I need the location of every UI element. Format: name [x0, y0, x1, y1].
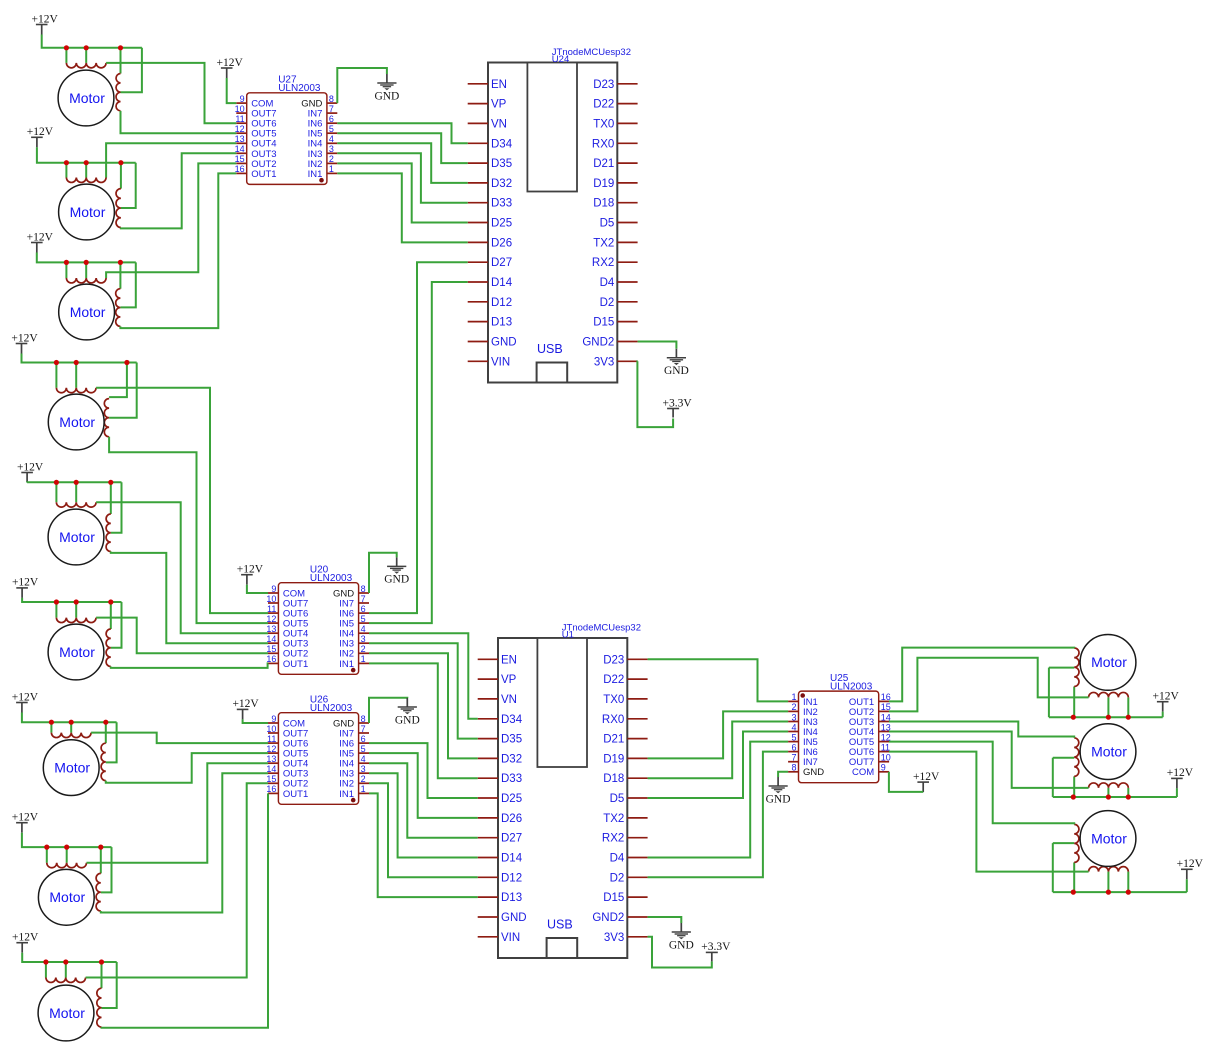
U1 pin VP: [478, 674, 517, 686]
wire rail center-tap coil-A (M-left-4): [75, 363, 77, 388]
svg-text:IN1: IN1: [339, 659, 354, 670]
U20 pin 9 COM: [268, 584, 305, 600]
svg-text:+12V: +12V: [17, 461, 44, 473]
U20 pin-1 marker dot: [351, 668, 356, 673]
svg-text:8: 8: [361, 714, 366, 724]
svg-text:OUT1: OUT1: [283, 789, 308, 800]
wire coil-A right to rail (M-right-3): [1127, 872, 1129, 893]
U24 pin D2: [600, 297, 638, 309]
coil A horizontal winding (M-left-2): [66, 178, 106, 183]
svg-text:OUT1: OUT1: [251, 169, 276, 180]
wire rail center-tap coil-A (M-left-3): [85, 262, 87, 278]
wire U27 GND to ground: [337, 68, 387, 103]
U24 pin D34: [468, 138, 513, 150]
svg-text:7: 7: [361, 724, 366, 734]
wire rail to coil-A left (M-left-1): [65, 48, 67, 63]
wire coil-A tap to rail (M-right-3): [1107, 872, 1109, 893]
wire rail-end to coil-B center-tap (M-left-8): [101, 847, 112, 892]
wire +12V rail (M-right-2): [1053, 796, 1177, 798]
svg-text:+12V: +12V: [12, 932, 39, 944]
U26 pin 12 OUT5: [266, 744, 308, 760]
power +12V (M-right-2): [1167, 767, 1194, 788]
U1 pin TX2: [603, 813, 647, 825]
U26 pin 10 OUT7: [266, 724, 308, 740]
U20 pin 2 IN2: [339, 644, 369, 660]
svg-text:1: 1: [791, 692, 796, 702]
power +12V (M-left-6): [12, 577, 39, 598]
module U1 USB connector: [547, 938, 578, 958]
junction rail/coil-A tap (M-right-2): [1106, 794, 1111, 799]
U25 pin 8 GND: [788, 763, 824, 779]
power +12V (M-right-1): [1153, 691, 1180, 712]
U27 pin 15 OUT2: [235, 154, 277, 170]
wire coil-A right to rail (M-right-1): [1127, 697, 1129, 717]
svg-text:4: 4: [361, 624, 366, 634]
U24 pin D18: [593, 198, 637, 210]
svg-text:D12: D12: [491, 297, 512, 309]
svg-text:GND: GND: [803, 767, 824, 778]
junction rail/coil-A tap (M-left-6): [74, 599, 79, 604]
U24 pin D26: [468, 237, 512, 249]
motor M-left-8: [38, 869, 94, 925]
U24 pin TX2: [593, 237, 637, 249]
svg-text:5: 5: [361, 614, 366, 624]
wire +12V to U26 COM: [243, 719, 268, 723]
motor M-left-6: [48, 624, 104, 680]
svg-text:D34: D34: [491, 138, 513, 150]
coil A horizontal winding (M-right-2): [1089, 783, 1129, 788]
U1 pin D35: [478, 734, 522, 746]
svg-text:D14: D14: [491, 277, 513, 289]
svg-text:Motor: Motor: [70, 304, 106, 320]
U1 pin D2: [610, 872, 648, 884]
U24 pin VP: [468, 99, 507, 111]
U24 pin VN: [468, 118, 507, 130]
U26 pin 1 IN1: [339, 784, 369, 800]
wire U20 GND to ground: [369, 553, 397, 593]
wire +12V rail (M-left-4): [22, 354, 137, 363]
U1 pin D15: [603, 892, 647, 904]
U20 pin 8 GND: [333, 584, 369, 600]
svg-text:4: 4: [329, 134, 334, 144]
svg-text:D5: D5: [610, 793, 625, 805]
svg-text:U24: U24: [552, 54, 569, 65]
coil A horizontal winding (M-left-4): [56, 388, 96, 393]
svg-text:D18: D18: [603, 773, 624, 785]
U27 pin 11 OUT6: [235, 114, 276, 130]
svg-text:GND2: GND2: [582, 337, 614, 349]
wire rail to coil-A left (M-left-4): [55, 363, 57, 388]
coil B vertical winding (M-left-3): [116, 289, 121, 327]
svg-text:D19: D19: [603, 753, 624, 765]
svg-text:Motor: Motor: [59, 644, 95, 660]
U27 pin 10 OUT7: [235, 104, 277, 120]
wire net M3 coilB to U27 OUT1: [120, 173, 236, 328]
svg-text:3: 3: [361, 764, 366, 774]
svg-text:VN: VN: [491, 118, 507, 130]
svg-text:+12V: +12V: [232, 698, 259, 710]
U1 pin D5: [610, 793, 648, 805]
svg-text:3V3: 3V3: [604, 932, 624, 944]
svg-text:GND: GND: [501, 912, 527, 924]
U1 pin VIN: [478, 932, 520, 944]
U25 pin 12 OUT5: [849, 732, 891, 748]
U20 pin 6 IN6: [339, 604, 369, 620]
svg-text:2: 2: [329, 154, 334, 164]
coil B vertical winding (M-left-7): [101, 743, 106, 780]
wire rail to coil-B top (M-left-7): [105, 722, 107, 743]
wire +12V rail (M-left-7): [22, 713, 117, 723]
junction rail/coil-A left (M-left-4): [54, 360, 59, 365]
coil B vertical winding (M-left-9): [97, 988, 102, 1027]
svg-text:3: 3: [791, 712, 796, 722]
U1 pin D33: [478, 773, 522, 785]
wire +12V rail (M-right-1): [1049, 716, 1163, 718]
svg-text:D26: D26: [491, 237, 512, 249]
wire rail to coil-A left (M-left-7): [50, 722, 52, 732]
wire +12V rail (M-left-9): [22, 953, 117, 962]
U1 pin D18: [603, 773, 647, 785]
svg-text:D35: D35: [491, 158, 512, 170]
module U24 USB connector: [537, 363, 568, 383]
wire U26 GND to ground: [369, 698, 407, 723]
U1 pin TX0: [603, 694, 647, 706]
svg-text:11: 11: [267, 734, 276, 744]
svg-text:3V3: 3V3: [594, 356, 614, 368]
svg-text:GND: GND: [766, 793, 791, 805]
junction rail/coil-A right (M-right-2): [1126, 794, 1131, 799]
svg-text:ULN2003: ULN2003: [310, 573, 353, 584]
wire U24 GND2 to ground: [638, 342, 677, 349]
svg-text:D25: D25: [491, 218, 512, 230]
U27 pin 3 IN3: [308, 144, 338, 160]
junction rail/coil-A left (M-left-2): [64, 160, 69, 165]
junction rail/coil-A right (M-right-3): [1126, 890, 1131, 895]
wire +12V rail (M-right-3): [1053, 891, 1187, 893]
wire net U25 OUT5 to M-right-3 coilB: [889, 742, 1074, 825]
U1 pin D12: [478, 872, 522, 884]
U24 pin D15: [593, 317, 637, 329]
svg-text:D32: D32: [501, 753, 522, 765]
svg-text:+12V: +12V: [11, 332, 38, 344]
U26 pin 7 IN7: [339, 724, 369, 740]
U20 pin 16 OUT1: [266, 654, 308, 670]
junction rail/coil-B (M-left-6): [108, 599, 113, 604]
svg-text:+12V: +12V: [12, 812, 39, 824]
wire center-tap down to rail (M-right-3): [1052, 843, 1054, 892]
IC U26 ULN2003 body: [278, 713, 358, 805]
junction rail/coil-A left (M-left-6): [54, 599, 59, 604]
wire +12V rail (M-left-2): [37, 147, 136, 162]
wire net M9 coilA to U26 OUT2: [86, 783, 268, 977]
svg-text:11: 11: [881, 742, 890, 752]
svg-text:D2: D2: [600, 297, 615, 309]
svg-text:1: 1: [361, 654, 366, 664]
wire net U1 D18 to U25 IN3: [648, 722, 789, 779]
wire coil-A right to rail (M-right-2): [1127, 788, 1129, 797]
junction rail/coil-A tap (M-right-3): [1106, 890, 1111, 895]
wire U25 COM to +12V: [889, 772, 923, 792]
U20 pin 7 IN7: [339, 594, 369, 610]
junction rail/coil-A tap (M-left-5): [74, 480, 79, 485]
svg-text:5: 5: [361, 744, 366, 754]
wire rail to coil-A left (M-left-8): [46, 847, 48, 863]
svg-text:6: 6: [361, 734, 366, 744]
svg-text:9: 9: [271, 584, 276, 594]
U25 pin 6 IN6: [788, 742, 818, 758]
wire +12V rail (M-left-5): [27, 481, 121, 483]
wire net U27 IN5 to U24 D35: [337, 133, 467, 163]
svg-text:D22: D22: [593, 99, 614, 111]
wire rail-end to coil-B center-tap (M-left-7): [106, 722, 117, 762]
junction rail/coil-A left (M-left-7): [49, 720, 54, 725]
wire net U27 IN4 to U24 D32: [337, 143, 467, 183]
svg-text:3: 3: [361, 634, 366, 644]
wire +12V rail (M-left-6): [22, 598, 121, 602]
wire net M5 coilB to U20 OUT3: [111, 552, 268, 644]
svg-text:+3.3V: +3.3V: [701, 941, 731, 953]
svg-text:TX0: TX0: [603, 694, 624, 706]
junction rail/coil-B (M-left-8): [98, 845, 103, 850]
svg-text:USB: USB: [537, 342, 563, 356]
power +12V (M-left-8): [12, 812, 39, 833]
coil A horizontal winding (M-left-1): [66, 63, 106, 68]
U24 pin D25: [468, 218, 512, 230]
junction rail/coil-A left (M-left-1): [64, 45, 69, 50]
power +12V (M-left-5): [17, 461, 44, 482]
svg-text:EN: EN: [501, 654, 517, 666]
wire net U25 OUT2 to M-right-1 coilA: [889, 658, 1089, 712]
svg-text:U1: U1: [562, 630, 574, 641]
U1 pin D14: [478, 853, 523, 865]
ground (U1 GND2): [669, 923, 694, 951]
U27 pin 7 IN7: [308, 104, 338, 120]
junction rail/coil-A tap (M-left-8): [64, 845, 69, 850]
svg-text:D33: D33: [501, 773, 522, 785]
U24 pin EN: [468, 79, 507, 91]
svg-text:Motor: Motor: [54, 759, 90, 775]
ground (U26): [395, 698, 420, 726]
U26 pin-1 marker dot: [351, 798, 356, 803]
U25 pin 11 OUT6: [849, 742, 890, 758]
svg-text:Motor: Motor: [1091, 654, 1127, 670]
U27 pin 14 OUT3: [235, 144, 277, 160]
wire rail to coil-B top (M-left-9): [101, 962, 103, 988]
svg-text:D35: D35: [501, 734, 522, 746]
svg-text:D4: D4: [610, 853, 625, 865]
svg-text:D22: D22: [603, 674, 624, 686]
svg-text:8: 8: [791, 763, 796, 773]
wire U1 3V3 to +3.3V: [648, 937, 712, 968]
wire net M8 coilA to U26 OUT4: [87, 763, 269, 863]
U27 pin 13 OUT4: [235, 134, 277, 150]
wire net U20 IN2 to U1 D32: [369, 653, 478, 758]
svg-text:RX0: RX0: [602, 714, 624, 726]
U27 pin 6 IN6: [308, 114, 338, 130]
wire net M2 coilA to U27 OUT4: [106, 143, 236, 177]
svg-text:TX0: TX0: [593, 118, 614, 130]
wire rail center-tap coil-A (M-left-6): [75, 602, 77, 618]
wire center-tap down to rail (M-right-1): [1048, 668, 1050, 718]
wire coil-B center-tap (M-right-2): [1053, 757, 1074, 759]
U24 pin D27: [468, 257, 512, 269]
U27 pin 2 IN2: [308, 154, 338, 170]
svg-text:D21: D21: [603, 734, 624, 746]
U26 pin 13 OUT4: [266, 754, 308, 770]
svg-text:GND: GND: [374, 90, 399, 102]
svg-text:Motor: Motor: [59, 414, 95, 430]
U20 pin 10 OUT7: [266, 594, 308, 610]
svg-text:D23: D23: [603, 654, 624, 666]
U24 pin D21: [593, 158, 637, 170]
junction rail/coil-A tap (M-left-7): [69, 720, 74, 725]
wire net U24 D27 to U20 IN6: [369, 262, 468, 613]
ground (U25): [766, 777, 791, 805]
svg-text:GND: GND: [664, 365, 689, 377]
svg-text:6: 6: [361, 604, 366, 614]
U24 pin TX0: [593, 118, 637, 130]
U20 pin 11 OUT6: [267, 604, 308, 620]
U26 pin 6 IN6: [339, 734, 369, 750]
junction rail/coil-A tap (M-left-9): [63, 959, 68, 964]
svg-text:D26: D26: [501, 813, 522, 825]
wire rail-end to coil-B center-tap (M-left-6): [111, 602, 122, 648]
wire net U1 D19 to U25 IN2: [648, 711, 789, 758]
wire net U27 IN6 to U24 D34: [337, 123, 467, 143]
motor M-left-9: [38, 985, 94, 1041]
wire net M3 coilA to U27 OUT2: [106, 163, 236, 278]
U1 pin 3V3: [604, 932, 648, 944]
U24 pin D35: [468, 158, 512, 170]
wire rail to coil-A left (M-left-2): [65, 163, 67, 178]
U1 pin D19: [603, 753, 647, 765]
svg-text:+12V: +12V: [12, 577, 39, 589]
svg-text:+12V: +12V: [237, 564, 264, 576]
svg-text:6: 6: [329, 114, 334, 124]
svg-text:7: 7: [329, 104, 334, 114]
IC U25 ULN2003 body: [799, 691, 879, 783]
module U24 antenna-area inner rect: [527, 63, 577, 192]
svg-text:10: 10: [266, 724, 276, 734]
svg-text:GND: GND: [395, 714, 420, 726]
junction rail/coil-A left (M-left-3): [64, 260, 69, 265]
coil A horizontal winding (M-left-5): [56, 502, 96, 507]
svg-text:2: 2: [361, 774, 366, 784]
U25 pin-1 marker dot: [800, 693, 805, 698]
wire rail center-tap coil-A (M-left-2): [85, 163, 87, 178]
motor M-right-3: [1080, 811, 1136, 867]
coil A horizontal winding (M-left-6): [56, 618, 96, 623]
wire net M2 coilB to U27 OUT3: [121, 153, 236, 228]
junction rail/coil-A left (M-left-9): [43, 959, 48, 964]
U24 pin RX0: [592, 138, 638, 150]
svg-text:TX2: TX2: [603, 813, 624, 825]
power +12V (U26 COM): [232, 698, 259, 719]
coil A horizontal winding (M-right-1): [1089, 692, 1129, 697]
svg-text:GND2: GND2: [592, 912, 624, 924]
svg-text:+12V: +12V: [27, 231, 54, 243]
svg-text:10: 10: [235, 104, 245, 114]
wire net U26 IN3 to U1 D14: [369, 773, 478, 857]
U25 pin 3 IN3: [788, 712, 818, 728]
svg-text:D5: D5: [600, 218, 615, 230]
svg-text:ULN2003: ULN2003: [278, 83, 321, 94]
junction rail/coil-A tap (M-left-1): [84, 45, 89, 50]
svg-text:GND: GND: [384, 574, 409, 586]
wire U24 3V3 to +3.3V: [637, 361, 673, 427]
coil B vertical winding (M-right-2): [1074, 738, 1079, 777]
wire rail-end to coil-B center-tap (M-left-2): [121, 163, 136, 208]
U1 pin EN: [478, 654, 517, 666]
svg-text:IN1: IN1: [339, 789, 354, 800]
U27 pin-1 marker dot: [319, 178, 324, 183]
wire +12V rail (M-left-3): [37, 253, 136, 263]
junction rail/coil-A tap (M-left-4): [74, 360, 79, 365]
U1 pin GND2: [592, 912, 647, 924]
svg-text:10: 10: [266, 594, 276, 604]
svg-text:9: 9: [271, 714, 276, 724]
svg-text:10: 10: [881, 753, 891, 763]
svg-text:Motor: Motor: [69, 90, 105, 106]
U26 pin 3 IN3: [339, 764, 369, 780]
wire coil-B bottom to rail (M-right-2): [1073, 776, 1075, 797]
U27 pin 1 IN1: [308, 164, 338, 180]
coil B vertical winding (M-right-1): [1074, 648, 1079, 686]
U1 pin VN: [478, 694, 517, 706]
power +12V (M-left-3): [27, 231, 54, 252]
svg-text:D12: D12: [501, 872, 522, 884]
motor M-left-1: [58, 70, 114, 126]
power +12V (M-left-4): [11, 332, 38, 353]
U20 pin 4 IN4: [339, 624, 369, 640]
wire net M1 coilA to U27 OUT6: [106, 63, 236, 123]
U25 pin 16 OUT1: [849, 692, 891, 708]
U24 pin GND: [468, 337, 517, 349]
U20 pin 1 IN1: [339, 654, 369, 670]
junction rail/coil-B (M-left-7): [103, 720, 108, 725]
svg-text:+12V: +12V: [217, 57, 244, 69]
svg-text:16: 16: [266, 784, 276, 794]
svg-text:VN: VN: [501, 694, 517, 706]
svg-text:OUT1: OUT1: [283, 659, 308, 670]
svg-text:D21: D21: [593, 158, 614, 170]
wire rail to coil-B top (M-left-1): [120, 48, 122, 74]
coil B vertical winding (M-left-8): [96, 873, 101, 911]
svg-text:+3.3V: +3.3V: [663, 397, 693, 409]
U25 pin 2 IN2: [788, 702, 818, 718]
svg-text:D15: D15: [603, 892, 624, 904]
svg-text:7: 7: [791, 753, 796, 763]
svg-text:D19: D19: [593, 178, 614, 190]
power +12V (U25 COM): [913, 771, 940, 792]
motor M-left-2: [59, 184, 115, 240]
svg-text:Motor: Motor: [59, 529, 95, 545]
wire net U27 IN2 to U24 D25: [337, 163, 467, 222]
wire +12V to U20 COM: [247, 585, 268, 593]
svg-text:TX2: TX2: [593, 237, 614, 249]
junction rail/coil-A tap (M-left-3): [84, 260, 89, 265]
U1 pin GND: [478, 912, 527, 924]
wire net U1 D2 to U25 IN6: [648, 752, 789, 878]
svg-text:8: 8: [361, 584, 366, 594]
wire +12V rail (M-left-1): [42, 35, 142, 48]
wire net M8 coilB to U26 OUT3: [101, 773, 268, 912]
wire net U25 OUT4 to M-right-2 coilA: [889, 732, 1089, 788]
junction rail/coil-B (M-right-3): [1071, 890, 1076, 895]
wire rail to coil-B top (M-left-6): [110, 602, 112, 629]
wire net U20 IN4 to U1 D34: [369, 633, 478, 719]
wire rail-end to coil-B center-tap (M-left-4): [109, 363, 137, 418]
